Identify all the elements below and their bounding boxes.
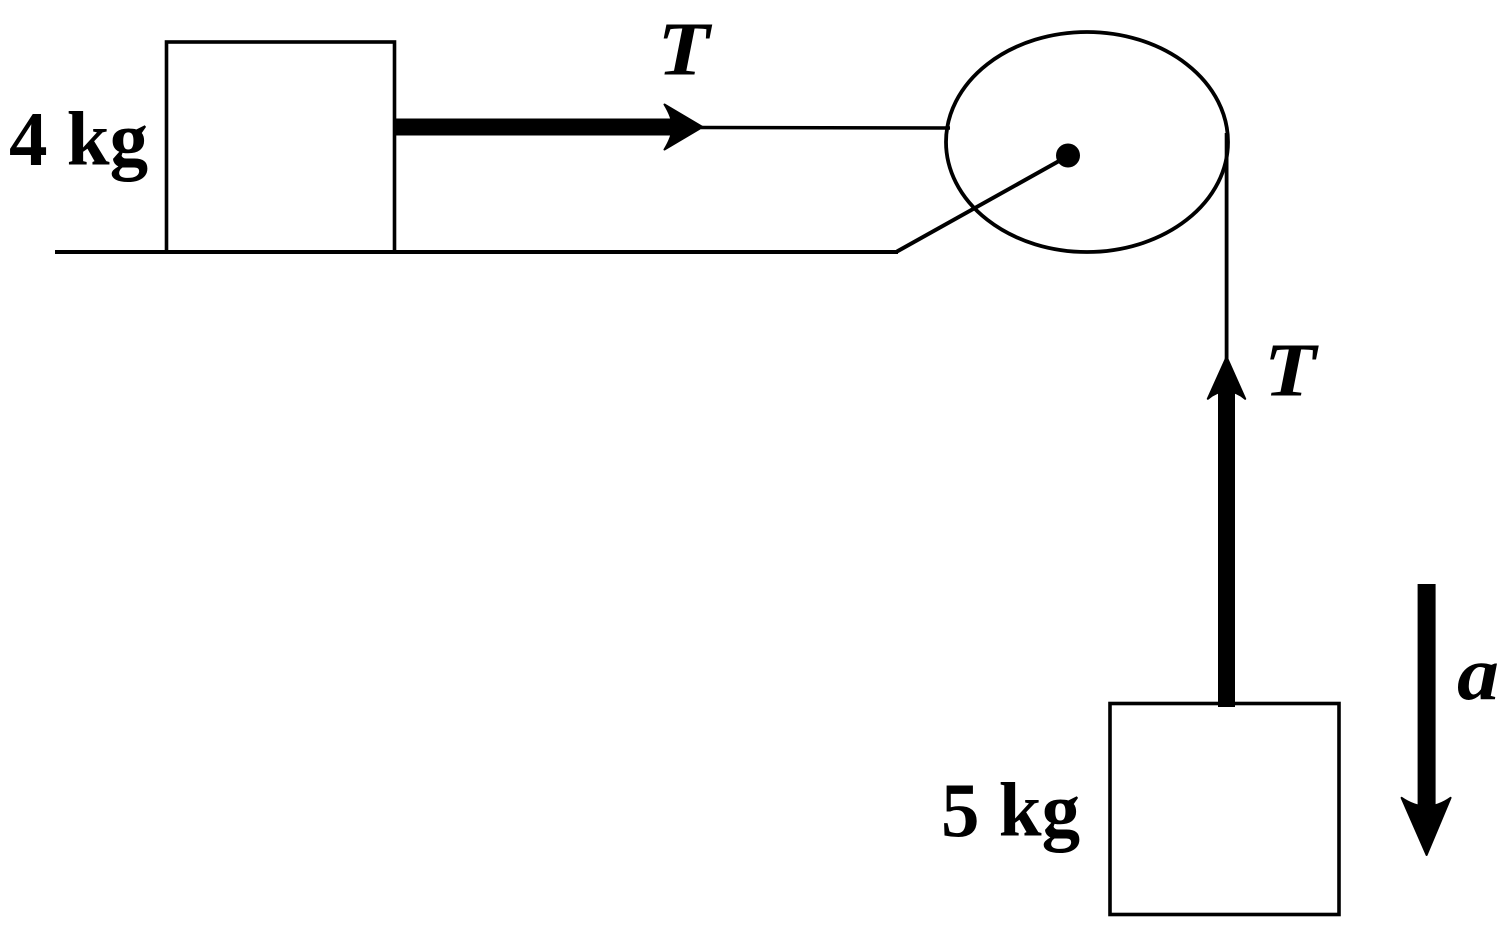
svg-text:T: T (658, 8, 713, 92)
rope from pulley to hanging block (1225, 133, 1229, 360)
tension arrow T vertical (1208, 357, 1245, 707)
svg-text:5 kg: 5 kg (941, 767, 1080, 853)
rope from block over pulley (701, 126, 950, 130)
table surface line (55, 250, 898, 254)
block 4 kg (167, 42, 395, 252)
svg-text:T: T (1264, 329, 1319, 413)
pulley support strut (897, 156, 1068, 252)
tension arrow T horizontal (393, 105, 703, 150)
svg-text:a: a (1457, 632, 1499, 716)
pulley wheel (946, 32, 1228, 252)
svg-text:4 kg: 4 kg (9, 96, 148, 182)
pulley axle dot (1056, 144, 1080, 168)
acceleration arrow a (1402, 584, 1451, 855)
block 5 kg (1110, 704, 1339, 915)
